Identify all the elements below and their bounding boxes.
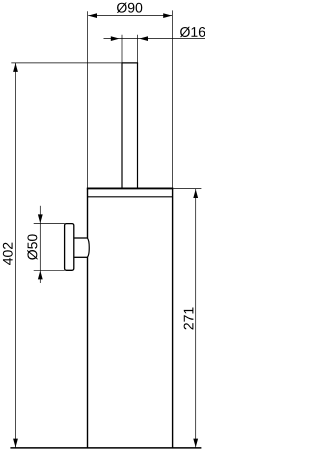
- wire 271 dimension line: [195, 189, 197, 448]
- wire ext line bottom of O50: [34, 269, 65, 271]
- node O90 left arrow: [88, 13, 97, 18]
- wire container left edge upper segment: [87, 188, 89, 238]
- wire ext line top of 402: [11, 62, 121, 64]
- wire neck top line: [74, 237, 88, 239]
- wire 402 dimension line: [15, 63, 17, 448]
- node O90 right arrow: [163, 13, 172, 18]
- brush handle: [121, 63, 138, 188]
- node O50 bottom arrow: [38, 271, 43, 280]
- node 271 bottom arrow: [193, 439, 198, 448]
- node O16 label: [180, 27, 205, 37]
- dimension 271: [173, 189, 201, 448]
- dimension Ø90: [88, 10, 173, 187]
- node O90 label: [117, 2, 142, 12]
- wire O90 dimension line: [88, 15, 172, 17]
- mounting neck: [74, 238, 89, 257]
- dimension Ø50: [34, 206, 65, 283]
- node O50 top arrow: [38, 214, 43, 223]
- container body outline: [10, 188, 201, 448]
- node 402 label: [3, 243, 13, 265]
- wire ext line top of O50: [34, 223, 65, 225]
- dimension 402: [11, 63, 121, 448]
- wire container top edge: [87, 187, 174, 189]
- wire neck bottom line: [74, 256, 88, 258]
- wire container right edge: [172, 188, 174, 447]
- wire O50 dimension line: [39, 206, 41, 283]
- wire container bottom edge with extensions: [10, 447, 201, 449]
- wire ext line right of O16: [137, 35, 139, 63]
- node O16 left arrow: [111, 36, 120, 41]
- wire handle left edge: [121, 63, 123, 188]
- node 402 top arrow: [13, 63, 18, 72]
- wire ext line left of O16: [121, 35, 123, 63]
- node O50 label: [27, 234, 37, 259]
- wire ext line top of 271: [173, 188, 201, 190]
- wire ext line right of O90: [172, 10, 174, 187]
- node 402 bottom arrow: [13, 439, 18, 448]
- wire handle top edge: [121, 62, 138, 64]
- dimension Ø16: [104, 35, 206, 63]
- node 271 top arrow: [193, 189, 198, 198]
- wire O16 dimension line with leader under text: [104, 38, 206, 40]
- wire ext line left of O90: [87, 11, 89, 187]
- wire container rim line: [88, 196, 173, 198]
- node O16 right arrow: [139, 36, 148, 41]
- wall plate: [65, 224, 74, 271]
- wire handle right edge: [137, 63, 139, 188]
- node 271 label: [184, 308, 194, 330]
- wire neck intersection arc: [87, 238, 89, 257]
- wire container left edge lower segment: [87, 257, 89, 448]
